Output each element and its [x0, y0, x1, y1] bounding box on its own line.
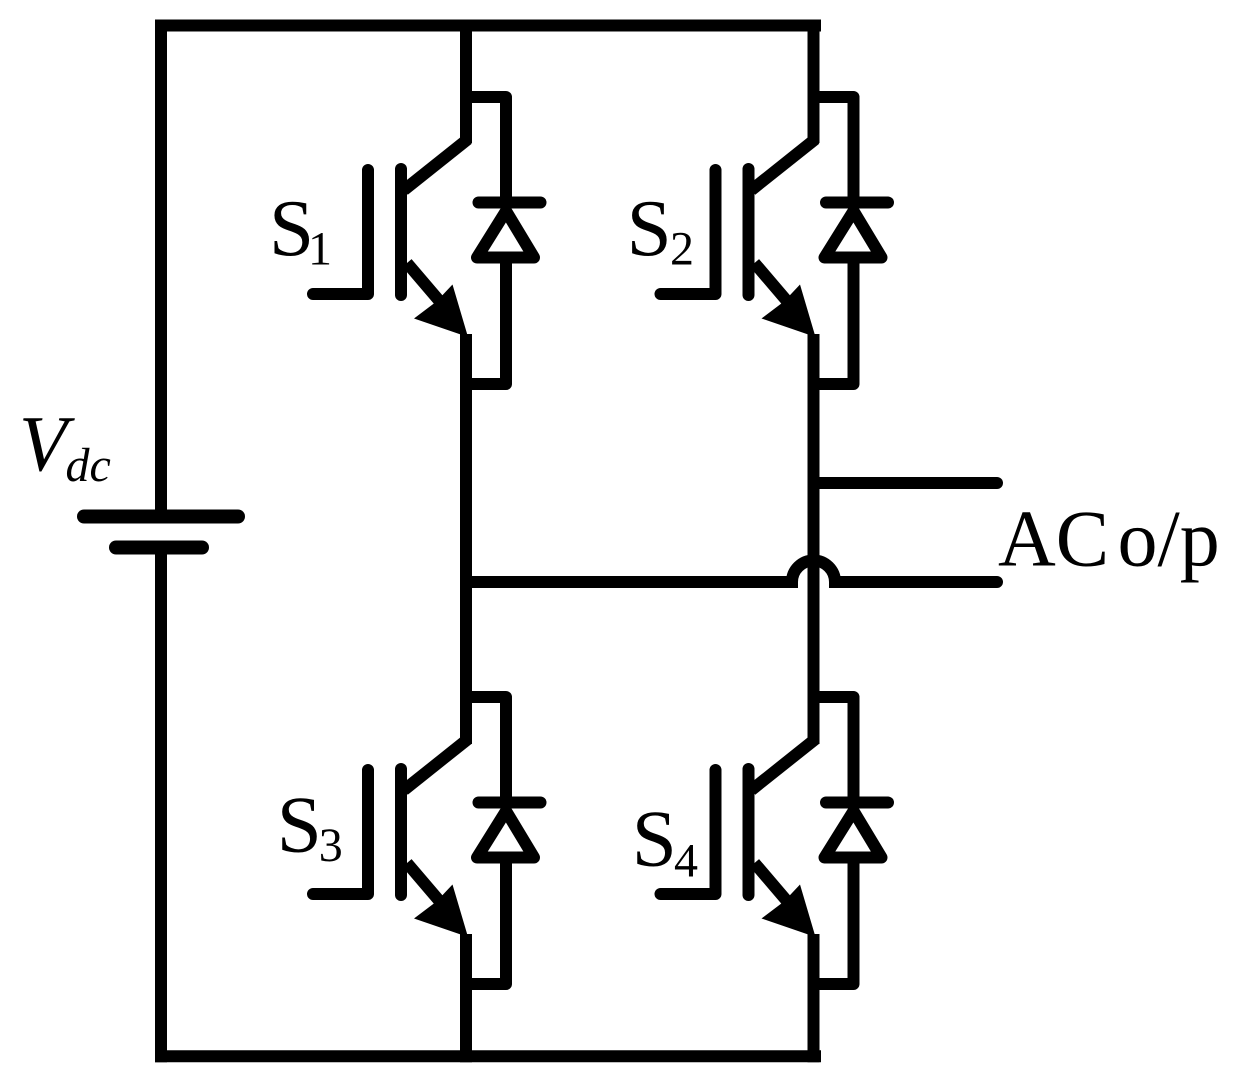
svg-text:S: S — [277, 780, 322, 870]
svg-text:S: S — [632, 794, 677, 884]
svg-text:dc: dc — [66, 439, 111, 492]
svg-text:3: 3 — [319, 819, 343, 872]
svg-text:o/p: o/p — [1118, 496, 1220, 584]
svg-text:S: S — [627, 183, 672, 273]
svg-text:1: 1 — [308, 223, 332, 276]
svg-text:2: 2 — [670, 223, 694, 276]
svg-text:AC: AC — [998, 496, 1109, 584]
svg-text:4: 4 — [674, 834, 698, 887]
